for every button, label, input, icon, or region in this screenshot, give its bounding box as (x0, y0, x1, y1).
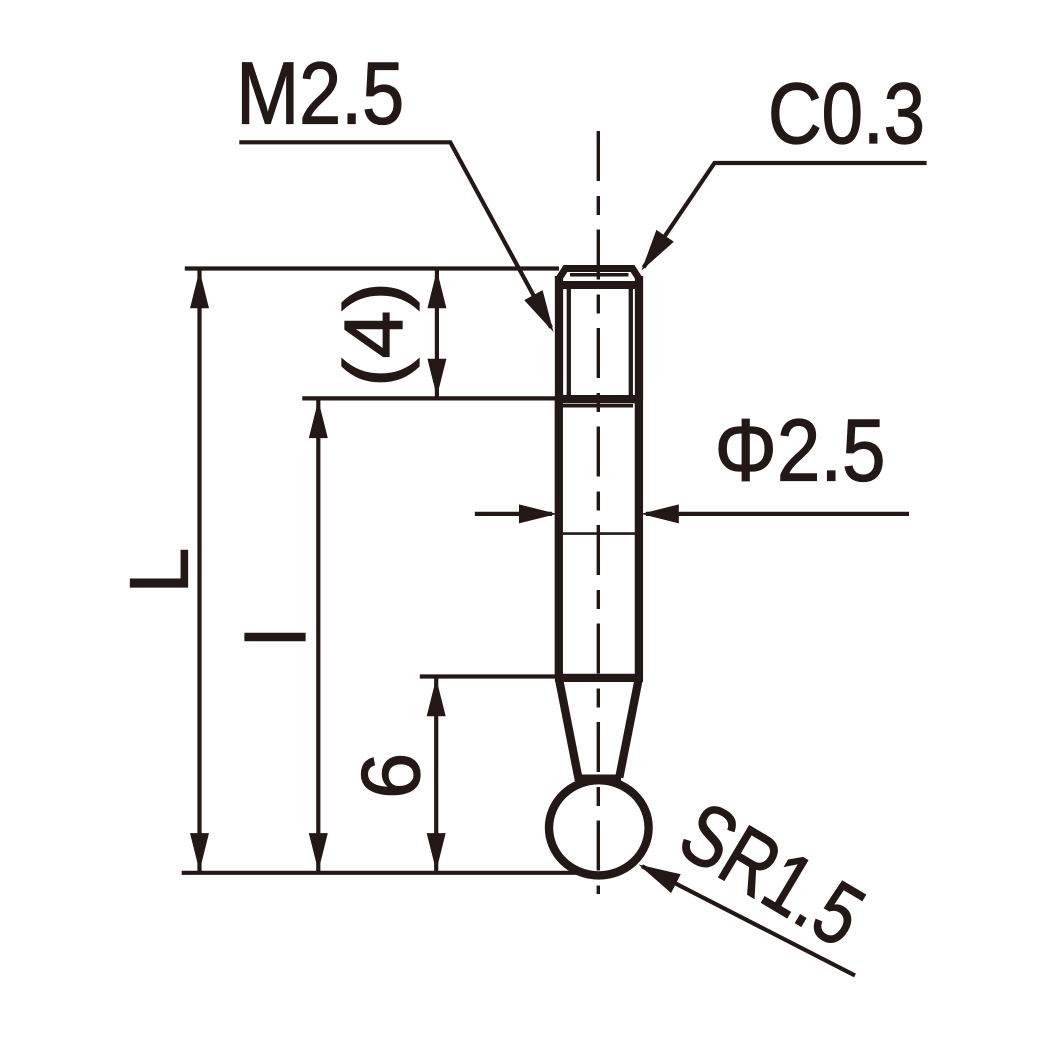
extension line thread bottom (302, 396, 556, 400)
svg-text:l: l (230, 628, 323, 646)
extension line top (185, 266, 559, 270)
extension line bottom baseline (182, 871, 586, 875)
svg-text:L: L (113, 548, 206, 594)
extension line taper start (420, 674, 556, 678)
dimension line 6 (434, 677, 438, 873)
dimension line (4) (435, 269, 439, 399)
thread end step (555, 395, 643, 403)
dimension line l (316, 398, 320, 872)
leader line SR1.5 (642, 866, 855, 975)
dimension line L (197, 269, 201, 873)
svg-text:Φ2.5: Φ2.5 (715, 401, 886, 500)
stem outline: threaded top section (559, 269, 639, 279)
taper to ball (555, 674, 643, 682)
svg-text:6: 6 (344, 753, 437, 799)
thread minor diameter lines (567, 287, 571, 400)
centerline (597, 131, 600, 894)
leader line C0.3 (644, 163, 927, 268)
ball tip SR1.5 (549, 780, 649, 875)
stem shank (555, 399, 563, 678)
svg-text:(4): (4) (327, 282, 420, 387)
dimension arrows for diameter 2.5 (475, 512, 552, 516)
leader line M2.5 (239, 142, 551, 327)
svg-text:M2.5: M2.5 (236, 44, 404, 143)
svg-text:C0.3: C0.3 (768, 66, 925, 162)
